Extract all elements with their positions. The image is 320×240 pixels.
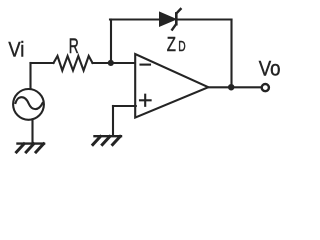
op-amp U1 <box>135 54 208 118</box>
wire input horizontal (Vi corner to resistor) <box>31 62 54 64</box>
wire non-inverting input <box>113 105 136 107</box>
op-amp minus sign <box>141 64 151 66</box>
node output junction dot <box>228 84 235 91</box>
wire to ground (non-inverting) <box>112 106 114 136</box>
output terminal (open circle) <box>262 84 269 91</box>
label Vi <box>8 38 24 62</box>
wire source vertical (corner down to AC source) <box>29 63 31 90</box>
resistor R <box>54 56 93 71</box>
ground (ac source) <box>17 144 45 152</box>
svg-text:Vi: Vi <box>8 38 24 62</box>
ac source Vi <box>13 89 44 120</box>
ground (non-inverting input) <box>93 136 121 144</box>
wire feedback top right segment <box>177 18 232 20</box>
wire feedback right vertical <box>230 20 232 88</box>
wire resistor to op-amp inverting input <box>93 62 136 64</box>
label Vo <box>259 56 281 80</box>
zener diode ZD <box>160 9 181 30</box>
wire source to ground <box>31 119 33 143</box>
wire feedback top left segment <box>110 18 161 20</box>
label ZD <box>167 33 186 56</box>
op-amp plus sign <box>140 99 151 101</box>
svg-text:D: D <box>178 39 185 55</box>
svg-text:R: R <box>69 34 79 58</box>
svg-text:Vo: Vo <box>259 56 281 80</box>
wire feedback left vertical <box>110 20 112 63</box>
node A junction dot (inverting input) <box>108 60 114 66</box>
label R <box>69 34 79 58</box>
svg-text:Z: Z <box>167 33 176 56</box>
wire output <box>208 86 261 88</box>
